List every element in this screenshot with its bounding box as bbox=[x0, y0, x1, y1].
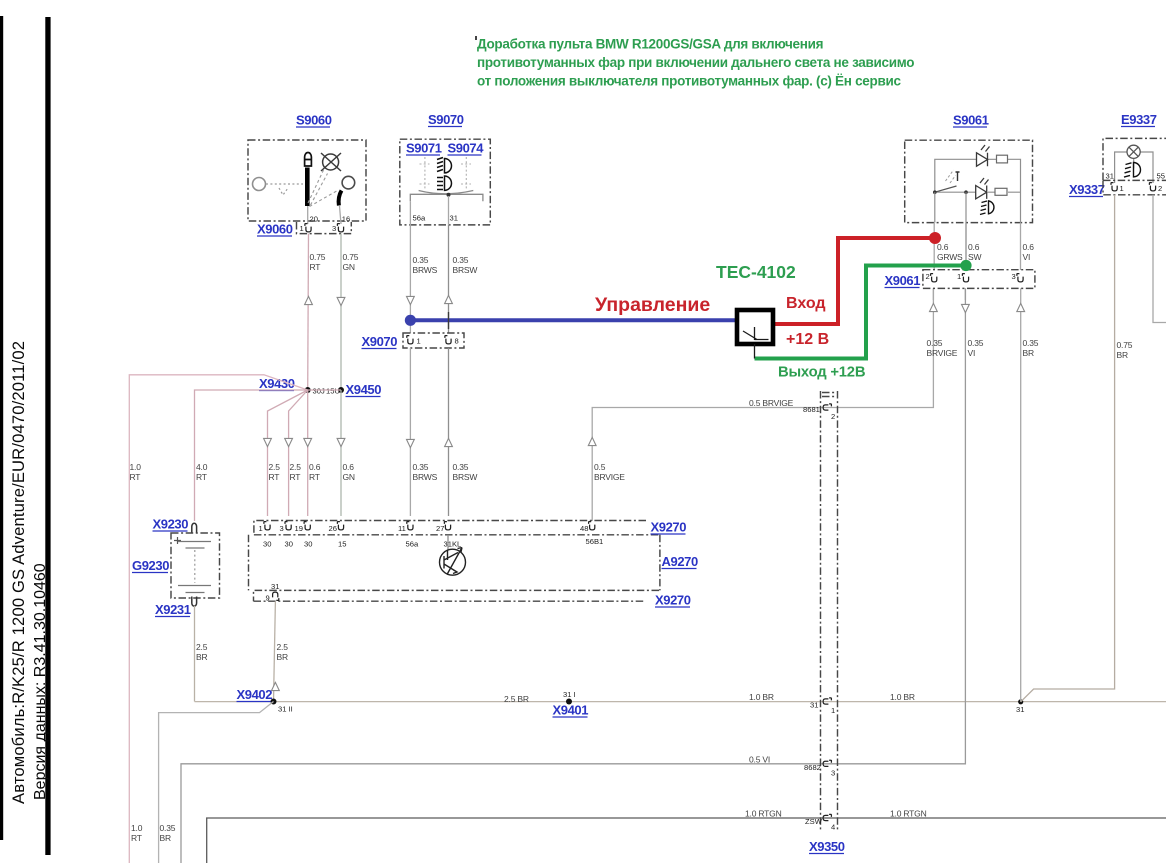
svg-text:30: 30 bbox=[263, 540, 271, 549]
E9337 fog symbol bbox=[1124, 163, 1141, 178]
svg-text:S9060: S9060 bbox=[296, 113, 332, 128]
X9060 pin 1 bbox=[305, 224, 311, 232]
svg-text:2.5: 2.5 bbox=[277, 642, 289, 652]
S9070 right dotted position bbox=[461, 157, 471, 190]
X9337 outline bbox=[1103, 180, 1166, 194]
svg-text:RT: RT bbox=[309, 472, 320, 482]
svg-text:3: 3 bbox=[831, 769, 835, 778]
label 0.75 BR bbox=[1117, 340, 1133, 360]
S9061 switch knob bbox=[956, 172, 960, 181]
wire BRSW crossing over blue bbox=[448, 312, 450, 329]
wire X9061 pin3 VI stub and down bbox=[1020, 223, 1022, 702]
svg-text:2.5 BR: 2.5 BR bbox=[504, 694, 529, 704]
label 0.35 BRWS lower bbox=[413, 462, 438, 482]
box S9061 bbox=[905, 140, 1033, 222]
TEC module box U1 bbox=[737, 310, 773, 344]
wire 0.5 BRVIGE from X9270 pin48 up to X9350 pin2 bbox=[592, 288, 933, 521]
svg-text:1: 1 bbox=[417, 337, 421, 346]
svg-text:BRWS: BRWS bbox=[413, 265, 438, 275]
X9270 pin 11 bbox=[407, 522, 413, 530]
svg-text:31 II: 31 II bbox=[278, 705, 293, 714]
wire 0.5 VI horizontal bbox=[181, 288, 965, 863]
svg-text:1: 1 bbox=[259, 524, 263, 533]
svg-text:X9350: X9350 bbox=[809, 839, 845, 854]
S9061 LED1 bbox=[977, 145, 990, 166]
svg-text:X9070: X9070 bbox=[362, 334, 398, 349]
S9070 high-beam symbol bbox=[437, 158, 452, 173]
wire X9061 pin2 SW stub bbox=[965, 223, 967, 270]
svg-text:2.5: 2.5 bbox=[290, 462, 302, 472]
S9061 pin stub wires bbox=[935, 192, 966, 222]
S9060 arc stroke bbox=[339, 191, 342, 206]
label 0.35 BRVIGE bbox=[927, 338, 958, 358]
svg-text:0.35: 0.35 bbox=[413, 462, 429, 472]
X9060 pin 3 bbox=[337, 224, 343, 232]
svg-text:1: 1 bbox=[300, 224, 304, 233]
svg-text:0.75: 0.75 bbox=[310, 252, 326, 262]
E9337 lamp wires bbox=[1115, 152, 1153, 183]
S9060 crossed-out lamp bbox=[321, 153, 341, 171]
label 0.75 RT bbox=[310, 252, 326, 272]
X9230 bullet pin bbox=[192, 523, 197, 533]
svg-text:1: 1 bbox=[831, 706, 835, 715]
S9061 resistor1 bbox=[997, 155, 1008, 163]
svg-text:RT: RT bbox=[196, 472, 207, 482]
wire X9337 pin1 down 0.75 BR bbox=[1021, 195, 1115, 702]
svg-text:1.0 BR: 1.0 BR bbox=[890, 692, 915, 702]
X9270 pin 26 bbox=[337, 522, 343, 530]
svg-text:2.5: 2.5 bbox=[196, 642, 208, 652]
label 0.6 SW bbox=[968, 242, 981, 262]
svg-text:0.35: 0.35 bbox=[968, 338, 984, 348]
arrows above X9270 pins bbox=[264, 438, 272, 446]
svg-text:X9337: X9337 bbox=[1069, 182, 1105, 197]
label 0.6 GN bbox=[343, 462, 355, 482]
svg-text:X9401: X9401 bbox=[553, 703, 589, 718]
S9061 node dots bbox=[933, 190, 937, 194]
svg-text:X9270: X9270 bbox=[655, 593, 691, 608]
svg-text:GN: GN bbox=[343, 262, 355, 272]
X9270 pin 3 bbox=[285, 522, 291, 530]
S9060 right circle bbox=[342, 176, 355, 189]
node X9430 bbox=[259, 376, 295, 391]
wire 1.0 RTGN horizontal bbox=[207, 818, 1166, 863]
label 0.5 BRVIGE bbox=[594, 462, 625, 482]
S9061 fog lamp symbol bbox=[980, 201, 994, 215]
wire X9402 branch down-left (0.35 BR) bbox=[159, 702, 274, 863]
svg-text:RT: RT bbox=[130, 472, 141, 482]
svg-text:0.75: 0.75 bbox=[343, 252, 359, 262]
svg-text:RT: RT bbox=[310, 262, 321, 272]
arrow up BRVIGE bbox=[588, 437, 596, 445]
svg-text:BRWS: BRWS bbox=[413, 472, 438, 482]
wire S9070 31 down to X9070 pin8 (0.35 BRSW) bbox=[448, 225, 450, 333]
svg-text:противотуманных фар при включе: противотуманных фар при включении дальне… bbox=[477, 55, 914, 70]
transistor Q1 bbox=[440, 548, 466, 576]
label 0.35 BR bottom bbox=[160, 823, 176, 843]
svg-text:8681: 8681 bbox=[803, 405, 820, 414]
S9061 LED2 bbox=[976, 178, 989, 199]
battery dotted core bbox=[194, 550, 196, 583]
X9270 contact labels bbox=[263, 537, 603, 549]
X9402 junction dot bbox=[271, 699, 277, 705]
label 2.5 RT b bbox=[290, 462, 302, 482]
connector X9270 bottom band bbox=[254, 590, 660, 601]
svg-text:A9270: A9270 bbox=[662, 554, 698, 569]
ground bus 31 horizontal (2.5 BR / 1.0 BR) bbox=[195, 701, 1166, 703]
svg-text:30J: 30J bbox=[313, 387, 325, 396]
wire X9070 pin1 down to X9270 pin11 bbox=[409, 348, 411, 516]
svg-text:X9060: X9060 bbox=[257, 222, 293, 237]
label 0.6 RT bbox=[309, 462, 321, 482]
svg-text:S9061: S9061 bbox=[953, 113, 989, 128]
svg-text:31: 31 bbox=[450, 214, 458, 223]
X9070 pin 1 bbox=[407, 336, 413, 344]
S9061 switch blade bbox=[935, 186, 957, 192]
green wire Выход bbox=[755, 266, 963, 359]
svg-text:BR: BR bbox=[196, 652, 207, 662]
svg-text:SW: SW bbox=[968, 252, 981, 262]
svg-text:1.0: 1.0 bbox=[131, 823, 143, 833]
pink fan wire to X9270 pin1 (2.5 RT) bbox=[268, 390, 308, 516]
connector X9061 bbox=[885, 273, 921, 288]
wire X9060 pin3 to node 15U (0.75 GN) bbox=[340, 234, 342, 390]
svg-text:3: 3 bbox=[1012, 272, 1016, 281]
svg-text:S9070: S9070 bbox=[428, 112, 464, 127]
svg-text:3: 3 bbox=[332, 224, 336, 233]
svg-text:BR: BR bbox=[160, 833, 171, 843]
svg-text:2: 2 bbox=[831, 412, 835, 421]
node 30J dot bbox=[305, 387, 311, 393]
svg-text:Вход: Вход bbox=[786, 295, 826, 312]
S9070 left dotted position bbox=[420, 157, 430, 190]
svg-text:RT: RT bbox=[290, 472, 301, 482]
arrow down on GN wire bbox=[337, 297, 345, 305]
svg-text:Управление: Управление bbox=[595, 294, 710, 316]
wire node 15U to X9270 pin26 (0.6 GN) bbox=[340, 390, 342, 516]
arrow up BRVIGE below X9061 bbox=[930, 303, 938, 311]
connector X9270 top band bbox=[254, 521, 659, 535]
svg-text:31KL: 31KL bbox=[444, 540, 462, 549]
label X9270 bottom bbox=[655, 593, 691, 608]
arrow up on BRSW bbox=[445, 295, 453, 303]
label 0.35 BR right bbox=[1023, 338, 1039, 358]
S9061 mid rail wire bbox=[935, 191, 1021, 193]
battery plates bbox=[178, 542, 211, 593]
label 2.5 BR mid bbox=[277, 642, 289, 662]
S9060 lever thick bar bbox=[305, 168, 310, 207]
label X9231 bbox=[155, 602, 191, 617]
label 0.35 BRSW upper bbox=[453, 255, 478, 275]
svg-text:X9061: X9061 bbox=[885, 273, 921, 288]
svg-text:X9450: X9450 bbox=[346, 382, 382, 397]
svg-text:Доработка пульта BMW R1200GS/G: Доработка пульта BMW R1200GS/GSA для вкл… bbox=[477, 37, 823, 52]
svg-text:RT: RT bbox=[131, 833, 142, 843]
svg-text:BR: BR bbox=[1117, 350, 1128, 360]
left border thick bar bbox=[45, 17, 50, 855]
E9337 lamp circle bbox=[1127, 145, 1140, 158]
svg-text:S9074: S9074 bbox=[448, 141, 485, 156]
label A9270 bbox=[662, 554, 698, 569]
label S9060 bbox=[296, 113, 332, 128]
svg-text:16: 16 bbox=[342, 215, 350, 224]
svg-text:VI: VI bbox=[968, 348, 976, 358]
arrow up BR below X9061 bbox=[1017, 303, 1025, 311]
svg-text:X9270: X9270 bbox=[651, 520, 687, 535]
arrow up on RT wire bbox=[305, 296, 313, 304]
node X9401 bbox=[553, 703, 589, 718]
wire X9061 pin1 down VI bbox=[964, 288, 966, 300]
svg-text:BRSW: BRSW bbox=[453, 472, 478, 482]
svg-text:GRWS: GRWS bbox=[937, 252, 963, 262]
label 0.75 GN bbox=[343, 252, 359, 272]
svg-text:15: 15 bbox=[338, 540, 346, 549]
X9070 pin 8 bbox=[445, 336, 451, 344]
svg-text:G9230: G9230 bbox=[132, 558, 169, 573]
pink fan wire to X9270 pin3 (2.5 RT) bbox=[289, 390, 308, 516]
box G9230 bbox=[171, 533, 220, 598]
S9060 key cap bbox=[305, 153, 312, 166]
svg-text:BRVIGE: BRVIGE bbox=[594, 472, 625, 482]
svg-text:0.6: 0.6 bbox=[937, 242, 949, 252]
X9350 pin 4 bbox=[823, 814, 831, 820]
svg-text:Выход +12В: Выход +12В bbox=[778, 365, 866, 381]
wire 1.0 RT from node 30J to far left and down bbox=[129, 375, 307, 863]
svg-text:4.0: 4.0 bbox=[196, 462, 208, 472]
svg-text:56a: 56a bbox=[413, 214, 426, 223]
X9061 pin 3 bbox=[1017, 274, 1023, 282]
label 0.6 GRWS bbox=[937, 242, 963, 262]
svg-text:31: 31 bbox=[271, 582, 279, 591]
svg-text:0.35: 0.35 bbox=[1023, 338, 1039, 348]
svg-text:3: 3 bbox=[280, 524, 284, 533]
svg-text:0.35: 0.35 bbox=[927, 338, 943, 348]
wire battery minus down to ground bus (2.5 BR) bbox=[194, 606, 196, 702]
X9061 pin 1 bbox=[962, 274, 968, 282]
S9070 base dot bbox=[447, 193, 451, 197]
wire X9070 pin8 down to X9270 pin27 bbox=[448, 348, 450, 516]
node X9450 bbox=[346, 382, 382, 397]
svg-text:X9230: X9230 bbox=[153, 517, 189, 532]
svg-text:31: 31 bbox=[810, 701, 818, 710]
S9060 dashed rays bbox=[308, 170, 338, 207]
arrow down on BRWS bbox=[407, 296, 415, 304]
X9070 outline bbox=[403, 333, 464, 348]
label 0.35 VI bbox=[968, 338, 984, 358]
X9061 pin 2 bbox=[930, 274, 936, 282]
box E9337 bbox=[1103, 138, 1166, 180]
wire X9270 pin9 down to X9402 (2.5 BR) bbox=[274, 601, 276, 701]
svg-text:55: 55 bbox=[1157, 172, 1165, 181]
blue junction dot bbox=[405, 315, 416, 326]
svg-text:0.35: 0.35 bbox=[413, 255, 429, 265]
svg-text:1.0: 1.0 bbox=[130, 462, 142, 472]
svg-text:ТЕС-4102: ТЕС-4102 bbox=[716, 262, 796, 282]
svg-text:X9231: X9231 bbox=[155, 602, 191, 617]
wire X9060 pin1 to node 30J (0.75 RT) bbox=[307, 234, 310, 390]
box S9070 bbox=[400, 139, 491, 225]
label 2.5 BR left bbox=[196, 642, 208, 662]
svg-text:0.5 VI: 0.5 VI bbox=[749, 755, 770, 765]
wire X9061 pin2 down BRVIGE bbox=[932, 288, 934, 300]
svg-text:0.5 BRVIGE: 0.5 BRVIGE bbox=[749, 398, 794, 408]
green header note bbox=[477, 37, 914, 89]
wire 4.0 RT from node 15U to battery column bbox=[195, 390, 342, 521]
X9350 pin 1 bbox=[823, 698, 831, 704]
label 4.0 RT bbox=[196, 462, 208, 482]
svg-text:BRVIGE: BRVIGE bbox=[927, 348, 958, 358]
svg-text:27: 27 bbox=[436, 524, 444, 533]
green junction dot bbox=[960, 260, 971, 271]
svg-text:1.0 RTGN: 1.0 RTGN bbox=[745, 809, 782, 819]
wire X9337 pin2 down then right bbox=[1153, 195, 1166, 323]
svg-text:4: 4 bbox=[831, 823, 835, 832]
tiny mark before header bbox=[475, 36, 477, 40]
svg-text:GN: GN bbox=[343, 472, 355, 482]
svg-text:8682: 8682 bbox=[804, 763, 821, 772]
svg-text:VI: VI bbox=[1023, 252, 1031, 262]
svg-text:2: 2 bbox=[926, 272, 930, 281]
svg-text:0.6: 0.6 bbox=[968, 242, 980, 252]
X9270 pin 19 bbox=[304, 522, 310, 530]
label S9070 bbox=[428, 112, 464, 127]
svg-text:от положения выключателя проти: от положения выключателя противотуманных… bbox=[477, 74, 901, 89]
connector X9060 bbox=[257, 222, 293, 237]
X9270 pin 48 bbox=[588, 522, 594, 530]
label 0.35 BRSW lower bbox=[453, 462, 478, 482]
label S9071 bbox=[406, 141, 442, 156]
svg-text:0.35: 0.35 bbox=[453, 462, 469, 472]
label E9337 bbox=[1121, 112, 1157, 127]
svg-text:30: 30 bbox=[304, 540, 312, 549]
label X9270 top bbox=[651, 520, 687, 535]
svg-text:20: 20 bbox=[310, 215, 318, 224]
svg-text:Автомобиль:R/K25/R 1200 GS Adv: Автомобиль:R/K25/R 1200 GS Adventure/EUR… bbox=[9, 341, 28, 804]
svg-text:0.35: 0.35 bbox=[160, 823, 176, 833]
wire node 30J to X9270 pin19 (0.6 RT) bbox=[307, 390, 309, 516]
label 2.5 RT a bbox=[269, 462, 281, 482]
svg-text:1: 1 bbox=[957, 272, 961, 281]
label S9061 bbox=[953, 113, 989, 128]
connector X9337 bbox=[1069, 182, 1105, 197]
label 1.0 RT bottom bbox=[131, 823, 143, 843]
X9350 pin 3 bbox=[823, 760, 831, 766]
svg-text:1.0 BR: 1.0 BR bbox=[749, 692, 774, 702]
svg-text:2: 2 bbox=[1158, 184, 1162, 193]
svg-text:19: 19 bbox=[295, 524, 303, 533]
svg-text:0.75: 0.75 bbox=[1117, 340, 1133, 350]
svg-text:31: 31 bbox=[1016, 705, 1024, 714]
X9337 pin 2 bbox=[1149, 183, 1155, 191]
S9070 base bracket bbox=[410, 194, 483, 201]
svg-text:0.6: 0.6 bbox=[1023, 242, 1035, 252]
svg-text:1.0 RTGN: 1.0 RTGN bbox=[890, 809, 927, 819]
svg-text:2.5: 2.5 bbox=[269, 462, 281, 472]
svg-text:0.5: 0.5 bbox=[594, 462, 606, 472]
S9070 pin stub wires bbox=[410, 196, 448, 225]
blue control wire bbox=[410, 318, 739, 322]
svg-text:8: 8 bbox=[455, 337, 459, 346]
wire pin27 to transistor bbox=[447, 535, 449, 550]
svg-text:56a: 56a bbox=[406, 540, 419, 549]
X9337 pin 1 bbox=[1111, 183, 1117, 191]
svg-text:BR: BR bbox=[1023, 348, 1034, 358]
X9060 outline bbox=[297, 222, 352, 234]
svg-text:26: 26 bbox=[329, 524, 337, 533]
label 0.6 VI bbox=[1023, 242, 1035, 262]
box S9060 bbox=[248, 140, 366, 221]
label X9230 bbox=[153, 517, 189, 532]
X9270 bottom pin 9 bbox=[273, 592, 279, 600]
svg-text:X9402: X9402 bbox=[237, 687, 273, 702]
arrow down lower BRWS bbox=[407, 439, 415, 447]
svg-text:BRSW: BRSW bbox=[453, 265, 478, 275]
left border thin bar bbox=[0, 16, 3, 840]
label 0.35 BRWS upper bbox=[413, 255, 438, 275]
wire S9070 56a down to X9070 pin1 (0.35 BRWS) bbox=[409, 225, 411, 333]
wire X9061 pin1 stub above bus bbox=[933, 223, 935, 270]
X9061 outline bbox=[923, 270, 1035, 289]
S9060 pin stub wires bbox=[308, 206, 341, 224]
svg-text:RT: RT bbox=[269, 472, 280, 482]
label S9074 bbox=[448, 141, 485, 156]
svg-text:S9071: S9071 bbox=[406, 141, 442, 156]
arrow down VI below X9061 bbox=[962, 304, 970, 312]
svg-text:31 I: 31 I bbox=[563, 690, 576, 699]
svg-text:0.6: 0.6 bbox=[343, 462, 355, 472]
S9070 selector arc bbox=[419, 191, 474, 194]
svg-text:48: 48 bbox=[580, 524, 588, 533]
node X9402 bbox=[237, 687, 273, 702]
svg-text:56B1: 56B1 bbox=[586, 537, 604, 546]
node 15U dot bbox=[338, 387, 344, 393]
S9061 top rail wire bbox=[935, 159, 1021, 222]
S9060 left circle bbox=[253, 178, 266, 191]
svg-text:31: 31 bbox=[1106, 172, 1114, 181]
svg-text:BR: BR bbox=[277, 652, 288, 662]
TEC module internals bbox=[743, 327, 769, 359]
svg-text:11: 11 bbox=[398, 524, 406, 533]
svg-text:1: 1 bbox=[1120, 184, 1124, 193]
svg-text:Версия данных: R3.41.30.10460: Версия данных: R3.41.30.10460 bbox=[32, 563, 49, 800]
junction dot on bus right bbox=[1018, 699, 1023, 704]
X9270 pin 27 bbox=[444, 522, 450, 530]
S9070 low-beam symbol bbox=[437, 176, 451, 190]
svg-text:+12 В: +12 В bbox=[786, 331, 829, 348]
connector X9070 bbox=[362, 334, 398, 349]
S9061 resistor2 bbox=[995, 188, 1007, 195]
X9231 bullet pin bbox=[192, 597, 197, 607]
svg-text:ZSW: ZSW bbox=[805, 817, 823, 826]
label G9230 bbox=[132, 558, 169, 573]
X9350 pin 2 bbox=[823, 404, 831, 410]
S9060 dotted pointer line bbox=[266, 184, 303, 195]
svg-text:0.6: 0.6 bbox=[309, 462, 321, 472]
arrow up above X9402 bbox=[272, 682, 280, 690]
box A9270 body bbox=[249, 535, 660, 591]
label 1.0 RT left bbox=[130, 462, 142, 482]
label X9350 bbox=[809, 839, 845, 854]
X9350 outline bbox=[821, 391, 838, 830]
X9270 pin 1 bbox=[264, 522, 270, 530]
svg-text:9: 9 bbox=[266, 594, 270, 603]
svg-text:E9337: E9337 bbox=[1121, 112, 1157, 127]
svg-text:15U: 15U bbox=[326, 387, 340, 396]
red wire Вход bbox=[773, 238, 932, 324]
S9061 switch dashes bbox=[946, 170, 956, 183]
X9401 junction dot bbox=[566, 699, 572, 705]
svg-text:30: 30 bbox=[285, 540, 293, 549]
